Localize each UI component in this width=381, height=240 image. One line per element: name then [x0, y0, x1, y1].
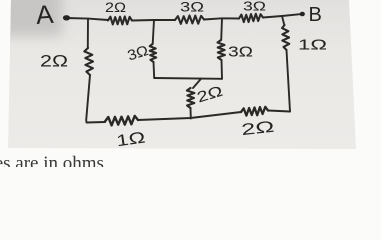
bottom wire to right corner — [268, 111, 290, 112]
resistor 1ohm bottom-left zigzag — [105, 116, 138, 126]
mid-right branch wire to middle wire — [221, 60, 224, 79]
svg-text:3Ω: 3Ω — [180, 0, 204, 15]
photo of paper — [8, 0, 356, 149]
svg-text:3Ω: 3Ω — [243, 0, 266, 14]
svg-text:2Ω: 2Ω — [241, 119, 276, 139]
resistor 2ohm middle vertical zigzag — [187, 88, 195, 108]
svg-text:es are in ohms: es are in ohms — [0, 153, 104, 167]
svg-text:2Ω: 2Ω — [40, 53, 68, 71]
middle horizontal wire — [154, 77, 222, 80]
svg-text:1Ω: 1Ω — [298, 37, 327, 54]
terminal dot B — [300, 12, 305, 17]
wire to node B — [263, 14, 300, 17]
resistor 2ohm bottom-right zigzag — [241, 107, 268, 116]
svg-text:3Ω: 3Ω — [228, 45, 253, 61]
middle 2ohm tail to bottom wire — [190, 108, 192, 119]
terminal dot A — [63, 15, 70, 20]
left branch wire to bottom corner — [86, 75, 105, 123]
resistor 3ohm mid-right vertical zigzag — [218, 40, 225, 60]
resistor 1ohm right vertical zigzag — [282, 25, 289, 50]
page background — [0, 0, 381, 167]
resistor 2ohm left vertical zigzag — [84, 48, 93, 75]
resistor 3ohm mid-left vertical zigzag — [150, 44, 157, 62]
wire A to junction1 — [66, 18, 108, 20]
wire to junction3 — [204, 18, 239, 19]
top-left corner shading — [0, 0, 62, 36]
svg-text:A: A — [35, 0, 55, 30]
bottom wire to middle junction — [138, 112, 241, 120]
mid-left branch wire to middle wire — [153, 62, 156, 78]
svg-text:B: B — [309, 4, 322, 26]
svg-text:2Ω: 2Ω — [105, 0, 126, 15]
wire junction1 area to junction2 — [132, 19, 175, 22]
right branch wire to bottom corner — [287, 50, 291, 112]
mid-right branch wire from top — [220, 18, 223, 40]
resistor 3ohm top-right zigzag — [239, 14, 263, 22]
resistor 2ohm top-left zigzag — [108, 16, 132, 24]
right branch wire from top — [282, 16, 284, 25]
left branch wire from top — [87, 19, 89, 48]
mid-left branch wire from top — [153, 20, 154, 44]
middle 2ohm drop wire — [193, 79, 201, 88]
resistor 3ohm top-middle zigzag — [175, 16, 204, 24]
